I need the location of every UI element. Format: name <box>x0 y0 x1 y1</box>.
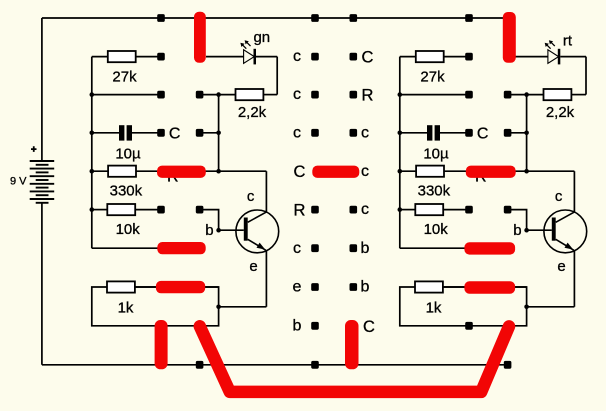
node dot col199.6 row6 <box>196 206 204 214</box>
junction on bus left y171.2 <box>90 169 95 174</box>
node dot col353.3 row8 <box>350 283 358 291</box>
jumper wire J5 (row5 right) <box>466 166 516 178</box>
svg-text:b: b <box>513 222 521 239</box>
node dot col469 row1 <box>465 14 473 22</box>
wire: under row8 jumper right <box>443 286 527 288</box>
capacitor 10u left plates <box>119 125 132 140</box>
wire: corner down to 2,2k row left <box>276 57 278 95</box>
svg-text:c: c <box>293 240 301 257</box>
wire: emitter link to 1k loop right <box>527 306 575 308</box>
node dot col161 row3 <box>157 91 165 99</box>
resistor 330k right <box>416 166 444 177</box>
node dot col507.6 row10 <box>504 361 512 369</box>
svg-text:27k: 27k <box>420 68 445 85</box>
transistor Q2 body circle <box>544 210 587 253</box>
node dot col469 row4 <box>465 129 473 137</box>
wire: capacitor to node row4 right <box>440 132 469 134</box>
label 2,2k left <box>238 104 267 121</box>
svg-text:330k: 330k <box>418 182 451 199</box>
transistor Q1 body circle <box>236 210 279 253</box>
net letter c left column row7 <box>293 240 301 257</box>
jumper wire J1 (top-left vertical) <box>194 12 206 63</box>
battery BT1 9V (cell plates) <box>30 161 55 203</box>
svg-text:rt: rt <box>563 33 573 50</box>
label C at capacitor node right <box>477 126 489 143</box>
svg-text:gn: gn <box>253 29 270 46</box>
svg-text:c: c <box>555 188 563 205</box>
junction on bus left y132.8 <box>90 131 95 136</box>
node dot col353.3 row4 <box>350 129 358 137</box>
node dot col161 row1 <box>157 14 165 22</box>
wire: 10k to node row6 right <box>443 209 469 211</box>
transistor Q2 emitter stroke with arrow <box>556 239 574 250</box>
wire: node to 2,2k right <box>508 94 544 96</box>
wire: node row6 to base corner right <box>508 210 552 231</box>
label 1k right <box>426 300 442 317</box>
junction on bus left y209.6 <box>90 207 95 212</box>
node dot col507.6 row3 <box>504 91 512 99</box>
net letter c left column row4 <box>293 124 301 141</box>
node dot col315 row9 <box>311 322 319 330</box>
net letter b left column row9 <box>293 317 302 334</box>
jumper wire J9 (row8 right) <box>464 281 515 293</box>
junction at base corner left <box>216 228 221 233</box>
label e at emitter left <box>249 258 257 275</box>
svg-text:c: c <box>293 48 301 65</box>
node dot col469 row6 <box>465 206 473 214</box>
wire: emitter down left <box>265 251 267 307</box>
junction on bus right y132.8 <box>398 131 403 136</box>
jumper wire J11 (bottom-centre vertical) <box>345 320 359 369</box>
battery value label 9 V <box>10 176 27 188</box>
wire: battery positive lead to top rail <box>41 18 43 161</box>
svg-text:C: C <box>363 318 375 336</box>
label 330k right <box>418 182 451 199</box>
transistor Q1 base bar <box>244 218 248 241</box>
junction on divider column right y132.8 <box>524 131 529 136</box>
node dot col353.3 row2 <box>350 53 358 61</box>
wire: capacitor to node row4 left <box>132 132 161 134</box>
capacitor 10u right plates <box>427 125 440 140</box>
wire: left vertical bus <box>91 57 93 249</box>
node dot col315 row6 <box>311 206 319 214</box>
svg-text:1k: 1k <box>118 300 134 317</box>
junction on divider column right y171.2 <box>524 169 529 174</box>
svg-text:c: c <box>293 86 301 103</box>
junction at emitter link right <box>524 305 529 310</box>
label 10u left <box>115 145 141 162</box>
node dot col507.6 row4 <box>504 129 512 137</box>
net letter b right column row7 <box>361 240 370 257</box>
label b at base left <box>205 222 213 239</box>
svg-text:c: c <box>361 163 369 180</box>
node dot col315 row1 <box>311 14 319 22</box>
junction at emitter link left <box>216 305 221 310</box>
wire: LED cathode to corner left <box>256 56 277 58</box>
wire: corner down to 2,2k row right <box>585 57 587 95</box>
wire: bus to 27k left <box>92 56 108 58</box>
resistor 27k left <box>108 51 136 62</box>
net letter c right column row4 <box>361 124 369 141</box>
svg-text:e: e <box>249 258 257 275</box>
jumper wire J6 (row7 left) <box>157 242 205 254</box>
svg-text:b: b <box>205 222 213 239</box>
node dot col199.6 row10 <box>196 361 204 369</box>
node dot col469 row3 <box>465 91 473 99</box>
svg-text:10k: 10k <box>116 221 141 238</box>
node dot col315 row8 <box>311 283 319 291</box>
wire: emitter link to 1k loop left <box>219 306 267 308</box>
svg-text:C: C <box>477 126 489 143</box>
label 10k right <box>424 221 449 238</box>
label C at capacitor node left <box>169 126 181 143</box>
wire: bus to 27k right <box>400 56 416 58</box>
transistor Q2 base bar <box>552 218 556 241</box>
wire: node row4 to junction right <box>508 132 527 134</box>
wire: corner down to collector right <box>573 171 575 212</box>
wire: node to 2,2k left <box>200 94 236 96</box>
svg-text:27k: 27k <box>112 68 137 85</box>
svg-text:e: e <box>557 258 565 275</box>
wire: top supply rail <box>42 17 508 19</box>
transistor Q1 collector stroke <box>248 212 267 222</box>
wire: 2,2k to corner left <box>263 94 277 96</box>
wire: right vertical bus <box>399 57 401 249</box>
label c at collector left <box>247 188 255 205</box>
label gn <box>253 29 270 46</box>
net letter C right column row2 <box>362 49 374 67</box>
net letter c right column row5 <box>361 163 369 180</box>
node dot col469 row2 <box>465 53 473 61</box>
jumper wire J4 (row5 centre) <box>312 166 359 178</box>
net letter c right column row6 <box>361 201 369 218</box>
battery plus sign <box>31 146 37 152</box>
LED D2 (rt) triangle <box>548 50 559 64</box>
junction on bus left y94.6 <box>90 92 95 97</box>
wire: jumper to LED anode right <box>514 56 548 58</box>
wire: 2,2k to corner right <box>571 94 586 96</box>
wire: bus to 330k left <box>92 170 108 172</box>
svg-text:C: C <box>294 163 306 181</box>
svg-text:R: R <box>362 87 374 105</box>
node dot col161 row2 <box>157 53 165 61</box>
svg-text:c: c <box>293 124 301 141</box>
resistor 1k left <box>107 281 135 292</box>
label rt <box>563 33 573 50</box>
svg-text:10k: 10k <box>424 221 449 238</box>
wire: LED cathode to corner right <box>560 56 586 58</box>
label 10u right <box>423 145 449 162</box>
node dot col353.3 row6 <box>350 206 358 214</box>
net letter R left column row6 <box>294 202 306 220</box>
node dot col315 row3 <box>311 91 319 99</box>
label 27k right <box>420 68 445 85</box>
label 330k left <box>110 182 143 199</box>
node dot col469 row9 <box>465 322 473 330</box>
node dot col199.6 row4 <box>196 129 204 137</box>
node dot col315 row10 <box>311 361 319 369</box>
svg-text:e: e <box>293 279 302 296</box>
node dot col161 row4 <box>157 129 165 137</box>
label 27k left <box>112 68 137 85</box>
wire: jumper to LED anode left <box>206 56 244 58</box>
wire: node row6 to base corner left <box>200 210 244 231</box>
node dot col353.3 row3 <box>350 91 358 99</box>
net letter e left column row8 <box>293 279 302 296</box>
net letter C right column row9 <box>363 318 375 336</box>
net letter c left column row2 <box>293 48 301 65</box>
jumper wire J3 (row5 left) <box>157 166 206 178</box>
label 2,2k right <box>546 104 575 121</box>
wire: 330k along row5 to corner right <box>444 170 574 172</box>
wire: under row8 jumper left <box>135 286 219 288</box>
svg-text:10µ: 10µ <box>423 145 449 162</box>
LED D1 light arrows <box>240 40 250 49</box>
svg-text:R: R <box>294 202 306 220</box>
node dot col315 row4 <box>311 129 319 137</box>
wire: bus to node row3 left <box>92 94 161 96</box>
svg-text:c: c <box>361 124 369 141</box>
jumper wire J10 (bottom-left vertical) <box>155 320 168 369</box>
net letter R right column row3 <box>362 87 374 105</box>
jumper wire J8 (row8 left) <box>156 281 205 293</box>
wire: bus to 330k right <box>400 170 416 172</box>
LED D2 light arrows <box>545 40 555 49</box>
label R under jumper left <box>167 169 179 186</box>
jumper wire J7 (row7 right) <box>464 242 515 254</box>
wire: bus to 10k right <box>400 209 416 211</box>
node dot col161 row6 <box>157 206 165 214</box>
label 1k left <box>118 300 134 317</box>
svg-text:b: b <box>361 240 370 257</box>
resistor 2,2k right <box>544 89 572 100</box>
node dot col353.3 row7 <box>350 244 358 252</box>
svg-text:10µ: 10µ <box>115 145 141 162</box>
node dot col353.3 row1 <box>350 14 358 22</box>
svg-text:2,2k: 2,2k <box>546 104 575 121</box>
svg-text:9 V: 9 V <box>10 176 27 188</box>
svg-text:b: b <box>361 279 370 296</box>
LED D2 cathode bar <box>558 49 561 65</box>
wire: bus to capacitor right <box>400 132 427 134</box>
net letter c left column row3 <box>293 86 301 103</box>
net letter C left column row5 <box>294 163 306 181</box>
wire: bottom supply rail <box>42 364 510 366</box>
junction on divider column right y94.6 <box>524 92 529 97</box>
svg-text:b: b <box>293 317 302 334</box>
svg-text:C: C <box>169 126 181 143</box>
svg-text:2,2k: 2,2k <box>238 104 267 121</box>
node dot col199.6 row3 <box>196 91 204 99</box>
wire: bus corner row7 left <box>92 247 203 249</box>
svg-text:c: c <box>361 201 369 218</box>
LED D1 (gn) triangle <box>244 50 255 64</box>
junction on bus right y171.2 <box>398 169 403 174</box>
junction on bus right y209.6 <box>398 207 403 212</box>
wire: 330k along row5 to corner left <box>136 170 266 172</box>
wire: bus to node row3 right <box>400 94 469 96</box>
jumper wire J12 (large ground strap) <box>200 326 509 392</box>
resistor 27k right <box>416 51 444 62</box>
wire: junction vertical row3-row5 left <box>218 95 220 172</box>
label e at emitter right <box>557 258 565 275</box>
wire: emitter down right <box>573 251 575 307</box>
resistor 10k left <box>107 204 135 215</box>
wire: 1k loop left <box>92 287 219 326</box>
resistor 2,2k left <box>236 89 264 100</box>
LED D1 cathode bar <box>254 49 257 65</box>
wire: bus to capacitor left <box>92 132 119 134</box>
junction on divider column left y94.6 <box>216 92 221 97</box>
resistor 1k right <box>415 281 443 292</box>
svg-text:c: c <box>247 188 255 205</box>
transistor Q1 emitter stroke with arrow <box>248 239 266 250</box>
label b at base right <box>513 222 521 239</box>
label R under jumper right <box>475 169 487 186</box>
junction at base corner right <box>524 228 529 233</box>
transistor Q2 collector stroke <box>556 212 575 222</box>
label c at collector right <box>555 188 563 205</box>
wire: junction vertical row3-row5 right <box>526 95 528 172</box>
svg-text:1k: 1k <box>426 300 442 317</box>
label 10k left <box>116 221 141 238</box>
node dot col507.6 row6 <box>504 206 512 214</box>
wire: bus to 10k left <box>92 209 108 211</box>
resistor 10k right <box>415 204 443 215</box>
wire: battery negative lead to bottom rail <box>41 203 43 365</box>
junction on divider column left y132.8 <box>216 131 221 136</box>
wire: corner down to collector left <box>265 171 267 212</box>
wire: 27k to node row2 right <box>444 56 469 58</box>
node dot col315 row2 <box>311 53 319 61</box>
wire: 1k loop right <box>400 287 527 326</box>
resistor 330k left <box>108 166 136 177</box>
wire: bus corner row7 right <box>400 247 511 249</box>
wire: node row4 to junction left <box>200 132 219 134</box>
junction on bus right y94.6 <box>398 92 403 97</box>
net letter b right column row8 <box>361 279 370 296</box>
wire: 27k to node row2 left <box>136 56 161 58</box>
junction on divider column left y171.2 <box>216 169 221 174</box>
wire: 10k to node row6 left <box>135 209 161 211</box>
svg-text:330k: 330k <box>110 182 143 199</box>
jumper wire J2 (top-right vertical) <box>503 12 516 63</box>
node dot col315 row7 <box>311 244 319 252</box>
svg-text:C: C <box>362 49 374 67</box>
